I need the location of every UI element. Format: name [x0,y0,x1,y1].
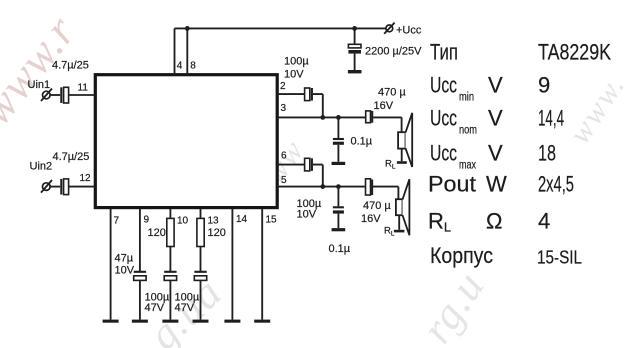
capacitor 100u/47V pin 13 [194,271,206,273]
svg-text:10V: 10V [284,69,304,81]
svg-text:100µ: 100µ [284,56,309,68]
capacitor 0.1u channel 1 [337,117,339,138]
capacitor 100u/10V pins 6-5 [305,158,310,171]
ground pin 7 [103,320,119,323]
svg-text:7: 7 [114,216,120,227]
svg-text:13: 13 [208,216,220,227]
wire pin 2 [277,93,304,95]
capacitor 2200u/25V [354,28,356,44]
wire 470u to speaker 2 [373,187,398,200]
capacitor 100u/47V pin 10 [164,271,176,273]
wire speaker 1 to ground [401,149,403,162]
svg-text:4: 4 [538,209,550,234]
svg-text:min: min [459,92,474,104]
svg-text:18: 18 [538,141,556,166]
wire pin 7 [110,209,112,320]
svg-text:10V: 10V [115,265,135,277]
ground pin 15 [254,320,270,323]
svg-text:+Ucc: +Ucc [396,25,422,37]
ground pin 9 [132,320,148,323]
input terminal Uin1 [43,91,51,99]
svg-text:Pout: Pout [428,172,476,197]
svg-text:15-SIL: 15-SIL [537,247,582,268]
svg-text:120: 120 [148,227,166,239]
svg-text:0.1µ: 0.1µ [351,136,373,148]
ground at 0.1u channel 2 [332,228,346,231]
junction pin3/0.1u [336,115,341,120]
svg-text:3: 3 [281,103,287,114]
svg-text:16V: 16V [361,213,381,225]
capacitor 47u/10V pin 9 [134,271,146,273]
svg-text:2: 2 [280,81,286,92]
svg-text:Uin1: Uin1 [28,79,51,91]
wire resistor to cap pin 13 [200,247,202,272]
svg-text:2200 µ/25V: 2200 µ/25V [365,46,422,58]
wire cap 100u to pin 5 node [313,165,323,187]
svg-text:4: 4 [177,61,183,72]
speaker BA2 [396,199,403,215]
svg-text:47V: 47V [175,302,195,314]
wire pin 4 to +Ucc rail [174,28,176,73]
svg-text:9: 9 [144,215,150,226]
svg-text:max: max [459,160,476,172]
wire pin 14 [231,209,233,320]
junction pin5/bootstrap [320,184,325,189]
svg-text:Ucc: Ucc [430,106,457,131]
resistor 120 pin 13 [197,218,204,246]
svg-text:Корпус: Корпус [430,243,493,268]
svg-text:Ucc: Ucc [430,73,457,98]
capacitor 4.7u/25 input 2 [60,179,62,195]
ground at speaker 1 [397,161,407,164]
svg-text:4.7µ/25: 4.7µ/25 [52,59,89,71]
ground at 2200u [348,70,362,73]
svg-text:120: 120 [208,227,226,239]
svg-text:47µ: 47µ [115,253,134,265]
svg-text:Ucc: Ucc [430,141,457,166]
IC U1 TA8229K body [95,75,277,208]
spec table [428,40,611,269]
wire pin 6 [277,164,304,166]
speaker BA1 [398,132,405,148]
wire pin 15 [261,209,263,320]
wire cap 47u to ground [139,280,141,319]
capacitor 470u/16V channel 2 [366,179,371,195]
svg-text:47V: 47V [145,302,165,314]
svg-text:16V: 16V [374,100,394,112]
svg-text:470 µ: 470 µ [363,200,391,212]
junction pin 8 / rail [185,26,190,31]
svg-text:14,4: 14,4 [538,106,564,131]
capacitor 100u/10V pins 2-3 [305,88,310,101]
svg-text:TA8229K: TA8229K [538,40,611,65]
wire input 1 [50,94,61,96]
svg-text:10: 10 [177,216,189,227]
power terminal +Ucc [386,25,393,32]
wire 470u to speaker 1 [373,117,402,132]
capacitor 470u/16V channel 1 [366,111,371,123]
wire pin 13 [200,209,202,219]
wire pin 8 to +Ucc rail [186,28,188,73]
svg-text:470 µ: 470 µ [378,87,406,99]
capacitor 4.7u/25 input 1 [60,87,62,103]
svg-text:12: 12 [80,173,92,184]
wire speaker 2 to ground [398,215,400,230]
svg-text:6: 6 [281,151,287,162]
resistor 120 pin 10 [167,218,174,246]
input terminal Uin2 [43,183,51,191]
svg-text:V: V [488,73,503,98]
svg-text:Uin2: Uin2 [30,161,53,173]
svg-text:14: 14 [236,214,248,225]
svg-text:2x4,5: 2x4,5 [538,172,574,197]
wire pin 3 output [277,116,366,118]
wire cap 100u to pin 3 node [313,94,323,117]
capacitor 0.1u channel 2 [337,187,339,207]
junction pin3/bootstrap [320,115,325,120]
svg-text:11: 11 [78,83,89,94]
junction pin5/0.1u [336,184,341,189]
svg-text:Ω: Ω [486,209,502,234]
svg-text:15: 15 [266,215,278,226]
svg-text:0.1µ: 0.1µ [329,243,351,255]
svg-text:nom: nom [459,125,477,137]
wire cap to ground pin 10 [169,280,171,319]
svg-text:V: V [488,141,503,166]
junction 2200u / rail [352,26,357,31]
wire cap to ground pin 13 [200,280,202,319]
ground pin 10 [162,320,178,323]
svg-text:10V: 10V [297,209,317,221]
wire resistor to cap pin 10 [169,247,171,272]
ground at speaker 2 [394,230,405,233]
svg-text:Тип: Тип [430,40,458,65]
wire pin 5 output [277,186,365,188]
wire cap to pin 12 [69,186,96,188]
ground at 0.1u channel 1 [332,162,346,165]
wire pin 9 [139,209,141,271]
svg-text:9: 9 [538,73,550,98]
wire cap to pin 11 [69,94,96,96]
wire pin 10 [169,209,171,219]
svg-text:5: 5 [281,175,287,186]
svg-text:V: V [488,106,503,131]
svg-text:W: W [486,172,507,197]
svg-text:8: 8 [190,61,196,72]
ground pin 13 [193,320,209,323]
wire input 2 [50,186,61,188]
wire +Ucc supply rail [175,27,386,29]
svg-text:4.7µ/25: 4.7µ/25 [53,151,90,163]
ground pin 14 [224,320,240,323]
